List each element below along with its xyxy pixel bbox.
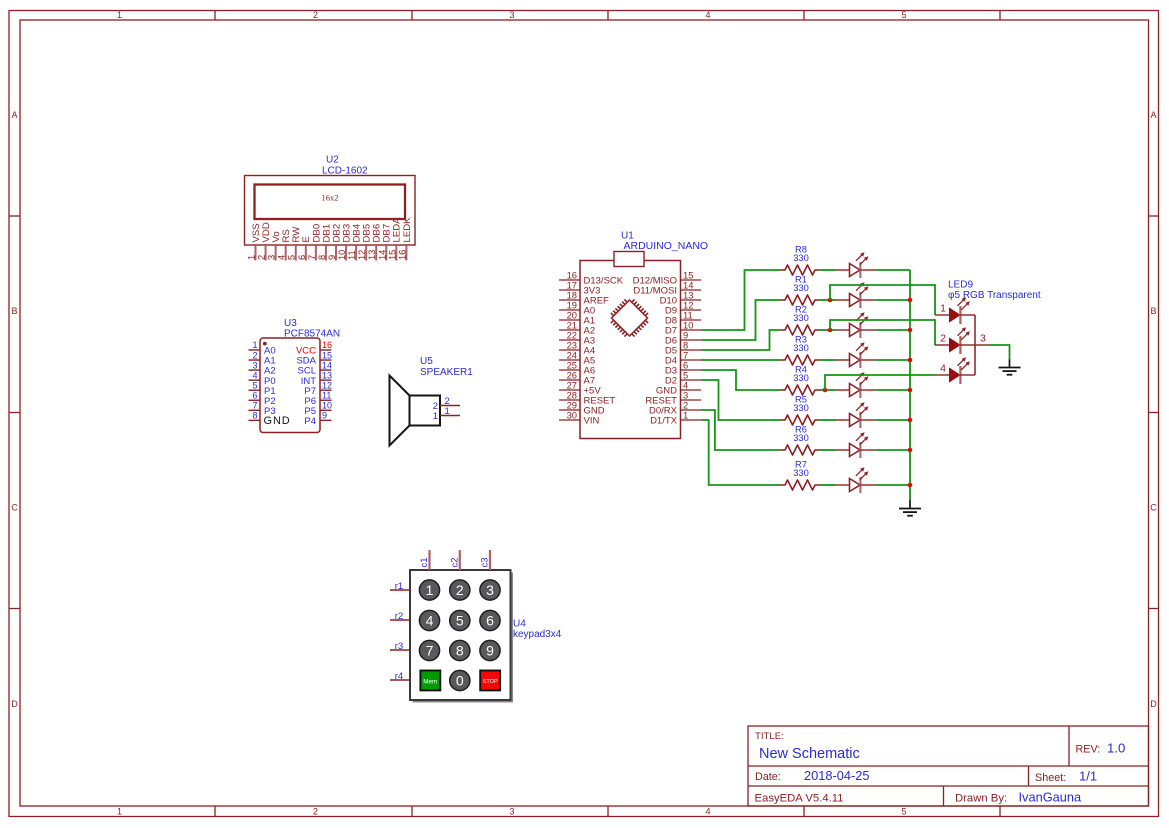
svg-text:New Schematic: New Schematic xyxy=(759,746,860,762)
LED LED9 RGB xyxy=(935,280,1041,385)
svg-text:4: 4 xyxy=(277,255,287,260)
svg-text:1: 1 xyxy=(252,340,257,350)
wire R7-LED7 xyxy=(820,484,836,486)
svg-text:14: 14 xyxy=(322,360,332,370)
svg-text:1/1: 1/1 xyxy=(1079,769,1097,784)
IC U3 PCF8574AN xyxy=(260,318,340,433)
svg-text:r3: r3 xyxy=(395,641,403,652)
svg-text:r2: r2 xyxy=(395,611,403,622)
resistor R3 xyxy=(780,335,820,365)
U5 pin 1 xyxy=(433,406,460,422)
wire R8-LED8 xyxy=(820,269,836,271)
wire R1-LED1 xyxy=(820,299,836,301)
LED9 pin numbers xyxy=(940,303,986,375)
R6 value 330 xyxy=(793,433,809,443)
svg-text:EasyEDA V5.4.11: EasyEDA V5.4.11 xyxy=(755,793,844,805)
wire R2-LED9.2 xyxy=(830,320,935,345)
svg-text:3: 3 xyxy=(980,333,986,345)
U1 chip diamond xyxy=(611,299,648,336)
svg-text:5: 5 xyxy=(901,10,906,20)
junction R2 anode tap xyxy=(828,328,833,333)
keypad button Mem xyxy=(420,671,440,691)
svg-text:STOP: STOP xyxy=(483,679,498,685)
svg-text:A: A xyxy=(11,110,17,120)
svg-text:keypad3x4: keypad3x4 xyxy=(513,629,562,640)
svg-text:1: 1 xyxy=(433,411,438,422)
svg-text:7: 7 xyxy=(252,401,257,411)
svg-text:VIN: VIN xyxy=(584,416,600,427)
svg-text:1: 1 xyxy=(247,255,257,260)
svg-text:10: 10 xyxy=(322,401,332,411)
IC U1 ARDUINO_NANO xyxy=(580,231,708,439)
wire LED9.3-ground xyxy=(989,345,1010,360)
U4 pin c3 xyxy=(480,550,491,570)
keypad buttons 1-9 xyxy=(419,580,500,661)
svg-text:6: 6 xyxy=(252,390,257,400)
svg-text:U5: U5 xyxy=(420,356,433,367)
svg-text:9: 9 xyxy=(322,411,327,421)
svg-text:4: 4 xyxy=(705,807,710,817)
svg-text:3: 3 xyxy=(509,807,514,817)
svg-text:B: B xyxy=(11,306,17,316)
svg-text:φ5 RGB Transparent: φ5 RGB Transparent xyxy=(948,290,1041,301)
svg-text:B: B xyxy=(1150,306,1156,316)
junction bus y=300 xyxy=(908,298,913,303)
svg-text:LED9: LED9 xyxy=(948,280,973,291)
svg-text:1: 1 xyxy=(117,807,122,817)
svg-text:13: 13 xyxy=(322,370,332,380)
svg-text:330: 330 xyxy=(793,433,809,443)
svg-text:3: 3 xyxy=(486,582,494,598)
svg-text:5: 5 xyxy=(901,807,906,817)
wire net D2-R5 xyxy=(701,380,780,420)
junction bus y=390 xyxy=(908,388,913,393)
junction bus y=330 xyxy=(908,328,913,333)
IC U2 LCD-1602 xyxy=(245,155,416,246)
svg-text:c1: c1 xyxy=(419,557,430,567)
svg-text:11: 11 xyxy=(347,250,357,260)
R1 value 330 xyxy=(793,283,809,293)
wire LED2-bus xyxy=(875,329,910,331)
svg-text:ARDUINO_NANO: ARDUINO_NANO xyxy=(624,240,709,252)
svg-text:9: 9 xyxy=(327,255,337,260)
svg-text:1.0: 1.0 xyxy=(1107,741,1125,756)
svg-text:4: 4 xyxy=(426,612,434,628)
R4 value 330 xyxy=(793,373,809,383)
svg-text:2: 2 xyxy=(313,807,318,817)
resistor R6 xyxy=(780,425,820,455)
svg-text:9: 9 xyxy=(486,642,494,658)
svg-text:Sheet:: Sheet: xyxy=(1035,772,1066,784)
wire LED6-bus xyxy=(875,449,910,451)
wire LED3-bus xyxy=(875,359,910,361)
svg-text:U3: U3 xyxy=(284,318,297,329)
U5 pin 2 xyxy=(433,396,460,412)
R5 value 330 xyxy=(793,403,809,413)
junction R4 anode tap xyxy=(823,388,828,393)
wire LED1-bus xyxy=(875,299,910,301)
svg-text:1: 1 xyxy=(426,582,434,598)
svg-text:15: 15 xyxy=(322,350,332,360)
svg-text:11: 11 xyxy=(322,390,331,400)
svg-text:LEDK: LEDK xyxy=(402,217,413,243)
U4 pin r4 xyxy=(390,671,410,682)
LED LED3 xyxy=(836,342,875,368)
svg-text:8: 8 xyxy=(317,255,327,260)
svg-text:14: 14 xyxy=(377,250,387,260)
svg-text:8: 8 xyxy=(456,642,464,658)
U3 pins 1-8 left xyxy=(249,340,291,427)
keypad button 0 xyxy=(450,670,470,690)
title block xyxy=(748,726,1149,806)
svg-text:r4: r4 xyxy=(395,671,403,682)
svg-text:15: 15 xyxy=(387,250,397,260)
wire R6-LED6 xyxy=(820,449,836,451)
svg-text:4: 4 xyxy=(705,10,710,20)
svg-text:330: 330 xyxy=(793,253,809,263)
resistor R1 xyxy=(780,275,820,305)
resistor R2 xyxy=(780,305,820,335)
wire net D6-R1 xyxy=(701,300,780,340)
wire net D7-R8 xyxy=(701,270,780,330)
LED LED6 xyxy=(836,432,875,458)
svg-text:330: 330 xyxy=(793,343,809,353)
wire net D1/TX-R7 xyxy=(701,420,780,485)
LED LED7 xyxy=(836,467,875,493)
svg-text:SPEAKER1: SPEAKER1 xyxy=(420,367,473,378)
U4 pin r1 xyxy=(390,581,410,592)
LED LED2 xyxy=(836,312,875,338)
resistor R8 xyxy=(780,245,820,275)
wire R1-LED9.1 xyxy=(830,285,935,315)
junction R1 anode tap xyxy=(828,298,833,303)
resistor R7 xyxy=(780,460,820,490)
svg-text:330: 330 xyxy=(793,373,809,383)
wire net D3-R4 xyxy=(701,370,780,390)
wire LED7-bus xyxy=(875,484,910,486)
svg-text:c2: c2 xyxy=(449,557,460,567)
svg-text:REV:: REV: xyxy=(1076,743,1101,755)
U3 pins 16-9 right xyxy=(296,340,332,427)
wire LED8-bus xyxy=(875,269,910,271)
U4 pin c2 xyxy=(449,550,460,570)
svg-text:4: 4 xyxy=(940,363,946,375)
svg-text:7: 7 xyxy=(307,255,317,260)
svg-text:5: 5 xyxy=(456,612,464,628)
svg-text:c3: c3 xyxy=(480,557,491,567)
svg-text:1: 1 xyxy=(117,10,122,20)
U2 pins 1-16 (stubs, names, numbers) xyxy=(247,217,413,261)
svg-text:Drawn By:: Drawn By: xyxy=(955,792,1007,804)
wire R3-LED3 xyxy=(820,359,836,361)
svg-text:D1/TX: D1/TX xyxy=(650,416,678,427)
junction bus y=450 xyxy=(908,448,913,453)
svg-text:5: 5 xyxy=(287,255,297,260)
svg-text:16x2: 16x2 xyxy=(322,193,339,203)
svg-text:IvanGauna: IvanGauna xyxy=(1019,790,1082,805)
keypad button STOP xyxy=(480,671,500,691)
resistor R4 xyxy=(780,365,820,395)
LED LED1 xyxy=(836,282,875,308)
ground LED9 xyxy=(999,360,1021,375)
junction bus y=420 xyxy=(908,418,913,423)
svg-text:2018-04-25: 2018-04-25 xyxy=(804,768,869,783)
U4 pin c1 xyxy=(419,550,430,570)
wire LED5-bus xyxy=(875,419,910,421)
svg-text:1: 1 xyxy=(940,303,946,315)
svg-text:U4: U4 xyxy=(513,619,526,630)
svg-text:1: 1 xyxy=(683,409,688,420)
ground bus xyxy=(899,500,921,516)
svg-text:6: 6 xyxy=(486,612,494,628)
wire R2-LED2 xyxy=(820,329,836,331)
R2 value 330 xyxy=(793,313,809,323)
svg-text:2: 2 xyxy=(456,582,464,598)
wire net D0/RX-R6 xyxy=(701,410,780,450)
svg-text:4: 4 xyxy=(252,370,257,380)
wire cathode bus xyxy=(909,270,911,500)
svg-text:3: 3 xyxy=(252,360,257,370)
R8 value 330 xyxy=(793,253,809,263)
U4 pin r2 xyxy=(390,611,410,622)
svg-text:10: 10 xyxy=(337,250,347,260)
wire LED4-bus xyxy=(875,389,910,391)
wire net D5-R2 xyxy=(701,330,780,350)
junction bus y=360 xyxy=(908,358,913,363)
svg-text:2: 2 xyxy=(257,255,267,260)
svg-text:330: 330 xyxy=(793,313,809,323)
svg-text:0: 0 xyxy=(456,672,464,688)
svg-text:330: 330 xyxy=(793,468,809,478)
svg-text:30: 30 xyxy=(567,409,577,420)
svg-text:330: 330 xyxy=(793,403,809,413)
svg-text:2: 2 xyxy=(940,333,946,345)
wire R4-LED9.4 xyxy=(825,375,935,390)
U1 pins 15-1 right xyxy=(633,269,701,426)
svg-text:12: 12 xyxy=(357,250,367,260)
svg-text:3: 3 xyxy=(509,10,514,20)
svg-text:TITLE:: TITLE: xyxy=(755,731,784,742)
svg-text:16: 16 xyxy=(322,340,332,350)
LED LED4 xyxy=(836,372,875,398)
svg-text:r1: r1 xyxy=(395,581,403,592)
svg-text:16: 16 xyxy=(397,250,407,260)
svg-text:GND: GND xyxy=(264,415,291,427)
svg-text:C: C xyxy=(11,503,18,513)
junction bus y=485 xyxy=(908,483,913,488)
svg-text:A: A xyxy=(1150,110,1156,120)
wire R4-LED4 xyxy=(820,389,836,391)
LED LED5 xyxy=(836,402,875,428)
svg-text:Date:: Date: xyxy=(755,771,781,783)
svg-text:13: 13 xyxy=(367,250,377,260)
svg-text:12: 12 xyxy=(322,380,332,390)
keypad U4 keypad3x4 xyxy=(410,570,562,703)
speaker U5 SPEAKER1 xyxy=(390,356,474,446)
resistor R5 xyxy=(780,395,820,425)
svg-text:C: C xyxy=(1150,503,1157,513)
svg-text:P4: P4 xyxy=(304,416,316,427)
svg-text:2: 2 xyxy=(252,350,257,360)
LED LED8 xyxy=(836,252,875,278)
svg-text:3: 3 xyxy=(267,255,277,260)
svg-text:330: 330 xyxy=(793,283,809,293)
svg-text:5: 5 xyxy=(252,380,257,390)
svg-text:1: 1 xyxy=(445,406,450,417)
U1 pins 16-30 left xyxy=(559,269,624,426)
R3 value 330 xyxy=(793,343,809,353)
svg-text:D: D xyxy=(11,699,18,709)
svg-text:D: D xyxy=(1150,699,1157,709)
svg-text:Mem: Mem xyxy=(423,678,437,685)
R7 value 330 xyxy=(793,468,809,478)
wire R5-LED5 xyxy=(820,419,836,421)
svg-text:2: 2 xyxy=(313,10,318,20)
wire net D4-R3 xyxy=(701,359,780,361)
svg-text:8: 8 xyxy=(252,411,257,421)
svg-text:6: 6 xyxy=(297,255,307,260)
U4 pin r3 xyxy=(390,641,410,652)
svg-text:7: 7 xyxy=(426,642,434,658)
svg-text:U2: U2 xyxy=(326,155,339,166)
